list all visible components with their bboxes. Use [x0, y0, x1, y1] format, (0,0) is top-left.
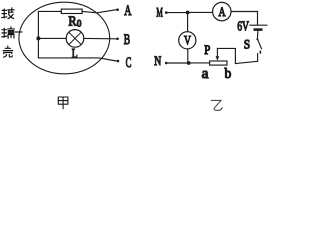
ammeter A1 — [213, 2, 231, 20]
svg-text:a: a — [202, 66, 209, 82]
svg-text:C: C — [126, 55, 132, 71]
svg-text:6V: 6V — [237, 19, 249, 34]
wire: resistor to terminal A — [82, 10, 116, 13]
wire: voltmeter stem bottom — [187, 49, 189, 62]
wire: voltmeter stem top — [187, 13, 189, 32]
rheostat body — [210, 61, 227, 65]
svg-text:A: A — [124, 3, 132, 19]
label 甲 (hand-drawn glyph) — [58, 97, 68, 109]
wire: top row, bus to resistor — [38, 10, 61, 12]
svg-text:V: V — [184, 33, 191, 48]
玻 — [2, 8, 14, 19]
璃 — [2, 27, 15, 38]
svg-text:M: M — [156, 5, 163, 20]
wire: left vertical bus inside shell — [37, 11, 39, 58]
terminal dot C — [117, 60, 120, 63]
svg-text:b: b — [225, 66, 232, 82]
lamp cross — [69, 32, 81, 44]
glass shell (ellipse) — [19, 2, 110, 74]
switch pivot — [256, 38, 258, 40]
junction dot (voltmeter bottom tap) — [187, 61, 191, 65]
wire: tap to ammeter — [190, 11, 213, 13]
wire: bottom row, bus to terminal C — [38, 58, 116, 61]
switch S blade — [257, 39, 261, 49]
wire: junction to lamp — [40, 37, 66, 39]
battery: short thick plate (-) — [254, 28, 263, 31]
lamp L (circle) — [66, 30, 84, 48]
壳 — [3, 46, 13, 57]
label 玻璃壳 (hand-drawn glyphs) — [2, 8, 15, 57]
svg-text:S: S — [244, 37, 250, 52]
wire: rheostat a-end to voltmeter bottom tap — [191, 62, 210, 64]
voltmeter V1 — [179, 32, 196, 49]
wire: battery to switch pivot — [256, 31, 259, 39]
svg-text:R: R — [68, 13, 76, 28]
svg-text:0: 0 — [77, 18, 82, 28]
junction dot (common node of R0, lamp, lead C) — [36, 36, 40, 40]
wire: lamp to terminal B — [84, 37, 116, 39]
svg-text:A: A — [219, 4, 226, 19]
terminal dot B — [116, 38, 119, 41]
leader line from label to shell — [15, 31, 22, 33]
wire: M to voltmeter tap — [168, 12, 186, 14]
svg-text:N: N — [154, 54, 161, 68]
junction dot (voltmeter top tap) — [186, 11, 190, 15]
wire: wiper drop and link to wiper arrow — [217, 48, 235, 63]
switch contact — [259, 51, 261, 53]
terminal dot N — [165, 62, 168, 65]
svg-text:P: P — [204, 43, 210, 57]
terminal dot M — [165, 11, 168, 14]
terminal dot A — [116, 8, 119, 11]
wiper arrow of rheostat — [216, 48, 218, 58]
label 乙 (hand-drawn glyph) — [211, 100, 222, 110]
wire: switch to bottom-right corner, left to wiper drop — [235, 54, 257, 64]
battery: long plate (+) — [249, 24, 267, 26]
resistor R0 — [61, 9, 82, 13]
wire: ammeter to top-right corner and down to battery — [231, 12, 258, 26]
svg-text:B: B — [124, 32, 130, 48]
wire: tap to N terminal — [168, 62, 187, 64]
